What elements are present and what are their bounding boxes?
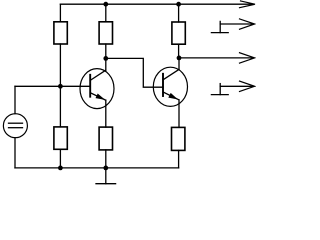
bottom rail [15, 167, 179, 169]
wire: R1 bottom to base node to R4 top [59, 44, 61, 127]
wire: R4 bottom to bottom rail [59, 149, 61, 168]
junction node Q1 base [58, 84, 63, 89]
wire: base wire to Q1 [15, 85, 90, 87]
output arrow 1 (top rail) [240, 1, 256, 8]
junction node bottom rail / R4 [58, 166, 63, 171]
transistor Q2 emitter stroke [163, 92, 179, 100]
transistor Q2 emitter arrow [168, 93, 178, 100]
wire: R2 bottom to Q1 collector node [105, 44, 107, 58]
wire: R3 bottom to Q2 collector node [178, 44, 180, 58]
transistor Q1 emitter arrow [96, 94, 106, 100]
ground [105, 168, 107, 184]
resistor R5 (Q1 emitter) [99, 127, 112, 150]
output arrow 2 [220, 23, 252, 25]
resistor R2 (Q1 collector) [99, 22, 112, 44]
transistor Q2 circle [153, 67, 187, 106]
transistor Q1 circle [80, 69, 114, 109]
transistor Q1 base bar [89, 75, 91, 97]
junction node Q2 collector [177, 56, 182, 61]
junction node bottom rail / ground [103, 166, 108, 171]
wire: top rail to R2 [105, 4, 107, 22]
junction node top rail / R2 [103, 2, 108, 7]
wire: R6 bottom to bottom rail [178, 150, 180, 168]
wire: top rail to R3 [178, 4, 180, 22]
wire: Q1 collector up to node [105, 58, 107, 70]
junction node top rail / R3 [176, 2, 181, 7]
resistor R4 (lower bias) [54, 127, 67, 149]
transistor Q2 collector stroke [163, 69, 179, 79]
transistor Q2 base bar [162, 74, 164, 96]
resistor R1 [54, 22, 67, 44]
wire: R5 bottom to bottom rail [105, 150, 107, 168]
wire: source bottom to bottom rail [14, 138, 16, 168]
transistor Q1 emitter stroke [90, 93, 106, 101]
resistor R3 (Q2 collector) [172, 22, 185, 44]
wire: Q2 collector up to node [178, 58, 180, 70]
source G1 upper bar [9, 122, 23, 124]
wire: top rail to R1 [59, 4, 61, 22]
source G1 lower bar [9, 127, 23, 129]
top rail [60, 3, 252, 5]
source G1 circle [3, 114, 27, 138]
resistor R6 (Q2 emitter) [172, 127, 185, 150]
common tick of output 2 [219, 21, 221, 32]
transistor Q1 collector stroke [90, 70, 106, 80]
common tick of output 4 [219, 84, 221, 95]
output arrow 4 [220, 85, 252, 87]
wire: source top to base wire corner [14, 86, 16, 113]
coupling wire Q1 collector to Q2 base [106, 58, 163, 87]
wire: Q1 emitter down to R5 [105, 100, 107, 127]
output arrow 3 (from Q2 collector) [179, 57, 253, 59]
junction node Q1 collector [103, 56, 108, 61]
wire: Q2 emitter down to R6 [178, 100, 180, 128]
